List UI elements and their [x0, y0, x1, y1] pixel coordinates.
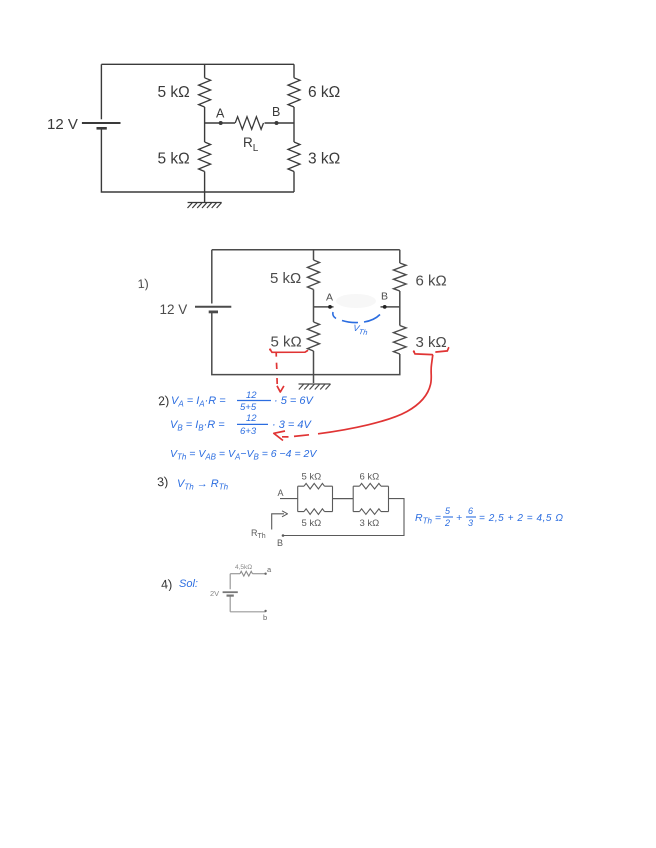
svg-text:12: 12 [246, 413, 257, 424]
svg-text:5+5: 5+5 [240, 402, 257, 413]
svg-text:3 kΩ: 3 kΩ [360, 518, 380, 529]
svg-text:6 kΩ: 6 kΩ [416, 273, 447, 290]
wire left rail circuit1 (upper) [100, 64, 102, 119]
label 5kOhm box1 bottom [302, 518, 322, 529]
RTh arrow section3 [251, 511, 288, 540]
svg-text:5 kΩ: 5 kΩ [158, 84, 190, 101]
wire node A to RL circuit1 [205, 122, 235, 124]
wire right rail circuit1 [293, 64, 295, 78]
svg-text:4,5kΩ: 4,5kΩ [235, 564, 252, 571]
wire bottom section4 [230, 611, 265, 613]
svg-text:6 kΩ: 6 kΩ [360, 472, 380, 483]
svg-text:3: 3 [468, 518, 473, 528]
svg-text:b: b [263, 613, 267, 622]
blue label Vth [352, 323, 368, 337]
blue eq line1 VA [171, 395, 226, 409]
erased RL smudge circuit2 [336, 294, 376, 308]
label A circuit1 [216, 107, 225, 121]
red swoosh arrow to eq2 [274, 355, 433, 441]
wire right branch mid circuit2 [399, 291, 401, 326]
wire middle branch bottom circuit2 [313, 351, 315, 383]
label B circuit1 [272, 105, 280, 119]
node B dot circuit2 [383, 305, 387, 309]
wire middle branch mid circuit1 [204, 107, 206, 142]
resistor 6k top-right circuit1 [288, 78, 300, 107]
svg-text:B: B [381, 291, 388, 303]
red bracket under 3k [413, 348, 449, 355]
svg-text:A: A [278, 488, 284, 498]
blue eq line1 fraction [237, 390, 271, 413]
terminal a section4 [264, 565, 272, 575]
label 2V section4 [210, 589, 219, 598]
svg-text:4): 4) [160, 577, 172, 592]
blue eq line2 tail [272, 419, 312, 431]
wire left rail circuit1 (lower) [101, 128, 204, 192]
svg-text:3): 3) [156, 474, 168, 489]
blue eq line2 fraction [237, 413, 268, 437]
red dashed arrow down to eq1 [276, 352, 284, 392]
ground circuit1 [188, 203, 222, 209]
label A circuit2 [326, 292, 333, 304]
resistor 3k circuit2 [394, 326, 407, 355]
label 5 kOhm bottom circuit2 [271, 334, 302, 351]
node A dot circuit1 [219, 121, 223, 125]
label 6 kOhm [308, 84, 340, 101]
wire top rail circuit1 [101, 63, 294, 65]
label 5 kOhm bottom-left [158, 151, 190, 168]
svg-text:2): 2) [157, 393, 169, 408]
wire stub node B circuit2 [381, 306, 400, 308]
svg-text:5: 5 [445, 506, 451, 516]
svg-text:B: B [277, 538, 283, 548]
svg-text:· 5 = 6V: · 5 = 6V [274, 395, 314, 407]
label 5kOhm box1 top [302, 472, 322, 483]
resistor 3k bottom-right circuit1 [288, 142, 300, 172]
blue eq line2 VB [170, 419, 225, 433]
label 6kOhm box2 top [360, 472, 380, 483]
ground circuit2 [299, 384, 331, 390]
svg-text:a: a [267, 565, 272, 574]
wire middle branch top circuit2 [313, 250, 315, 260]
svg-text:5 kΩ: 5 kΩ [302, 472, 322, 483]
svg-text:VB = IB·R =: VB = IB·R = [170, 419, 225, 433]
svg-text:5 kΩ: 5 kΩ [302, 518, 322, 529]
wire middle branch mid circuit2 [313, 290, 315, 323]
label 4.5kOhm section4 [235, 564, 252, 571]
svg-text:6+3: 6+3 [240, 426, 257, 437]
wire right section3 [283, 499, 404, 536]
resistor 5k top-left circuit1 [199, 78, 211, 107]
label 12 V circuit2 [160, 302, 188, 317]
label 3) step marker [156, 474, 168, 489]
svg-text:RL: RL [243, 135, 259, 154]
label 6 kOhm circuit2 [416, 273, 447, 290]
wire left rail section4 [229, 574, 231, 612]
svg-text:RTh: RTh [251, 528, 266, 540]
svg-text:3 kΩ: 3 kΩ [308, 151, 340, 168]
svg-text:VTh: VTh [352, 323, 368, 337]
wire left rail circuit2 upper [211, 250, 213, 304]
battery V1 12V [82, 123, 121, 128]
svg-text:= 2,5 + 2 = 4,5 Ω: = 2,5 + 2 = 4,5 Ω [479, 513, 564, 524]
label 1) step marker [137, 276, 149, 291]
svg-text:12 V: 12 V [160, 302, 188, 317]
label RL [243, 135, 259, 154]
svg-text:5 kΩ: 5 kΩ [271, 334, 302, 351]
battery 12V circuit2 [195, 307, 231, 312]
resistor 3k box2 bottom [360, 509, 382, 515]
svg-text:VTh = VAB = VA−VB = 6 −4 = 2V: VTh = VAB = VA−VB = 6 −4 = 2V [170, 448, 317, 462]
label 3kOhm box2 bottom [360, 518, 380, 529]
wire between boxes [333, 498, 354, 500]
blue label VTh RTh [177, 478, 229, 492]
label 5 kOhm top-left [158, 84, 190, 101]
label B circuit2 [381, 291, 388, 303]
wire middle branch bottom circuit1 [204, 172, 206, 203]
resistor 6k circuit2 [394, 263, 407, 291]
svg-text:+: + [456, 512, 462, 524]
red bracket under 5k [269, 349, 307, 353]
resistor RTh section4 [240, 571, 253, 576]
svg-text:6 kΩ: 6 kΩ [308, 84, 340, 101]
blue eq line3 VTh [170, 448, 317, 462]
wire bottom rail circuit1 [205, 191, 294, 193]
svg-text:B: B [272, 105, 280, 119]
blue arc Vth measurement [333, 312, 380, 323]
label 3 kOhm circuit2 [416, 334, 447, 351]
wire left rail circuit2 lower [212, 312, 400, 375]
resistor 5k bottom circuit2 [308, 322, 320, 351]
svg-text:Sol:: Sol: [179, 578, 198, 590]
svg-text:A: A [326, 292, 333, 304]
label 12 V [47, 116, 78, 133]
svg-text:· 3 = 4V: · 3 = 4V [272, 419, 312, 431]
svg-text:2: 2 [444, 518, 450, 528]
terminal b section4 [263, 610, 267, 622]
wire right branch bottom circuit1 [293, 172, 295, 193]
wire top rail circuit2 [212, 249, 400, 251]
wire top section4 [230, 573, 240, 575]
svg-text:2V: 2V [210, 589, 219, 598]
wire RL to node B circuit1 [265, 122, 295, 124]
node A dot circuit2 [328, 305, 332, 309]
svg-text:6: 6 [468, 506, 473, 516]
blue eq line1 tail [274, 395, 314, 407]
resistor RL circuit1 [235, 117, 263, 130]
svg-text:RTh =: RTh = [415, 512, 441, 526]
resistor 5k box1 bottom [304, 509, 325, 515]
parallel box1 frame [298, 486, 333, 511]
wire stub node A circuit2 [314, 306, 334, 308]
wire middle branch top circuit1 [204, 64, 206, 78]
node B dot circuit1 [275, 121, 279, 125]
label 3 kOhm [308, 151, 340, 168]
svg-text:12 V: 12 V [47, 116, 78, 133]
svg-text:3 kΩ: 3 kΩ [416, 334, 447, 351]
resistor 5k bottom-left circuit1 [199, 142, 211, 172]
resistor 5k box1 top [304, 483, 325, 489]
svg-text:5 kΩ: 5 kΩ [158, 151, 190, 168]
label 4) step marker [160, 577, 172, 592]
wire top right section4 [253, 573, 266, 575]
label 2) step marker [157, 393, 169, 408]
wire right branch top circuit2 [399, 250, 401, 263]
resistor 5k top circuit2 [308, 260, 320, 290]
wire right branch mid circuit1 [293, 107, 295, 142]
svg-text:A: A [216, 107, 225, 121]
svg-text:VTh → RTh: VTh → RTh [177, 478, 229, 492]
parallel box2 frame [353, 486, 388, 511]
battery 2V section4 [223, 592, 238, 595]
svg-text:1): 1) [137, 276, 149, 291]
blue label Sol [179, 578, 198, 590]
svg-text:12: 12 [246, 390, 257, 401]
terminal A section3 [278, 488, 298, 499]
svg-text:VA = IA·R =: VA = IA·R = [171, 395, 226, 409]
blue RTh formula [415, 506, 564, 528]
label 5 kOhm top circuit2 [270, 270, 301, 287]
terminal B section3 [277, 534, 284, 548]
svg-text:5 kΩ: 5 kΩ [270, 270, 301, 287]
resistor 6k box2 top [360, 483, 382, 489]
